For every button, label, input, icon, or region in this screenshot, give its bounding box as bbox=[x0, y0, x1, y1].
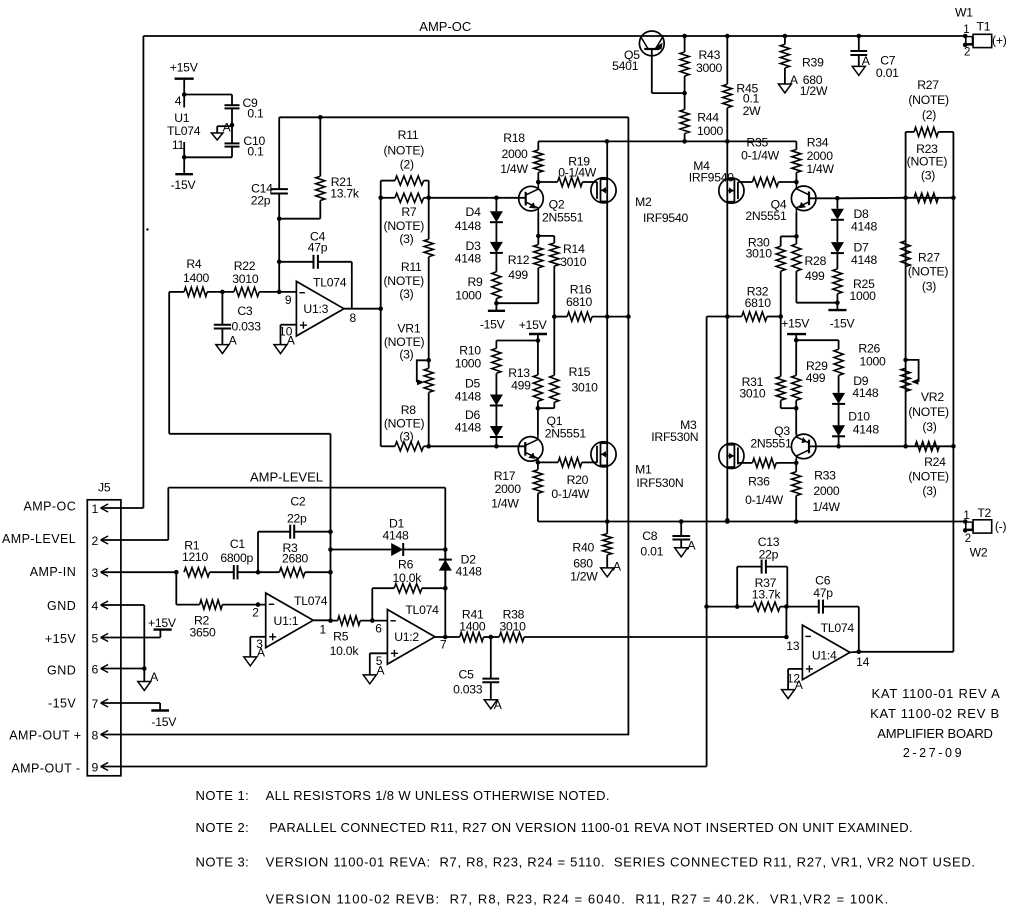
svg-text:0.033: 0.033 bbox=[453, 683, 483, 697]
svg-text:R8: R8 bbox=[401, 403, 417, 417]
svg-text:C3: C3 bbox=[237, 304, 253, 318]
svg-text:499: 499 bbox=[508, 268, 528, 282]
svg-text:A: A bbox=[687, 538, 696, 552]
svg-text:4148: 4148 bbox=[455, 389, 482, 403]
svg-text:R6: R6 bbox=[398, 558, 414, 572]
svg-text:(NOTE): (NOTE) bbox=[908, 470, 949, 484]
svg-text:2N5551: 2N5551 bbox=[542, 211, 584, 225]
svg-text:2000: 2000 bbox=[501, 147, 528, 161]
svg-text:+15V: +15V bbox=[148, 616, 177, 630]
svg-text:1000: 1000 bbox=[850, 289, 877, 303]
svg-text:3010: 3010 bbox=[232, 272, 259, 286]
svg-text:8: 8 bbox=[92, 728, 99, 742]
svg-text:+15V: +15V bbox=[170, 61, 199, 75]
svg-text:W2: W2 bbox=[970, 546, 988, 560]
svg-text:499: 499 bbox=[511, 379, 531, 393]
svg-text:6: 6 bbox=[92, 662, 99, 676]
svg-text:47p: 47p bbox=[308, 240, 328, 254]
svg-text:+15V: +15V bbox=[781, 316, 810, 330]
svg-text:+15V: +15V bbox=[45, 632, 77, 646]
svg-text:1000: 1000 bbox=[455, 356, 482, 370]
svg-text:VR1: VR1 bbox=[397, 321, 420, 335]
svg-text:22p: 22p bbox=[251, 193, 271, 207]
svg-text:6810: 6810 bbox=[745, 296, 772, 310]
svg-text:2: 2 bbox=[965, 533, 971, 545]
svg-text:2680: 2680 bbox=[282, 552, 309, 566]
svg-text:680: 680 bbox=[573, 556, 593, 570]
svg-text:10: 10 bbox=[279, 324, 293, 338]
svg-text:R27: R27 bbox=[917, 78, 939, 92]
svg-text:1000: 1000 bbox=[455, 289, 482, 303]
svg-text:8: 8 bbox=[349, 311, 356, 325]
svg-text:R22: R22 bbox=[234, 259, 256, 273]
svg-text:J5: J5 bbox=[98, 480, 111, 494]
svg-text:14: 14 bbox=[856, 655, 870, 669]
svg-text:2: 2 bbox=[252, 606, 259, 620]
svg-text:22p: 22p bbox=[759, 547, 779, 561]
svg-text:(NOTE): (NOTE) bbox=[383, 274, 424, 288]
svg-text:3010: 3010 bbox=[560, 255, 587, 269]
svg-text:1210: 1210 bbox=[182, 550, 209, 564]
svg-text:4148: 4148 bbox=[456, 565, 483, 579]
svg-text:1/2W: 1/2W bbox=[570, 569, 598, 583]
svg-text:3010: 3010 bbox=[500, 620, 527, 634]
svg-text:3010: 3010 bbox=[739, 387, 766, 401]
svg-text:1000: 1000 bbox=[859, 354, 886, 368]
svg-text:499: 499 bbox=[806, 371, 826, 385]
svg-text:2000: 2000 bbox=[495, 482, 522, 496]
svg-text:D4: D4 bbox=[466, 205, 482, 219]
svg-text:(3): (3) bbox=[399, 430, 413, 444]
svg-text:R4: R4 bbox=[186, 257, 202, 271]
svg-text:10.0k: 10.0k bbox=[330, 644, 360, 658]
svg-text:IRF9540: IRF9540 bbox=[643, 211, 688, 225]
svg-text:3650: 3650 bbox=[189, 626, 216, 640]
svg-text:0.01: 0.01 bbox=[640, 545, 663, 559]
svg-text:R18: R18 bbox=[503, 131, 525, 145]
svg-text:-15V: -15V bbox=[48, 697, 76, 711]
svg-text:10.0k: 10.0k bbox=[393, 571, 423, 585]
svg-text:IRF530N: IRF530N bbox=[636, 476, 683, 490]
svg-text:R7: R7 bbox=[401, 205, 417, 219]
svg-text:11: 11 bbox=[172, 138, 185, 152]
svg-text:R27: R27 bbox=[918, 250, 940, 264]
svg-text:-15V: -15V bbox=[480, 317, 506, 331]
svg-text:2N5551: 2N5551 bbox=[750, 436, 792, 450]
svg-text:13.7k: 13.7k bbox=[752, 588, 782, 602]
svg-text:A: A bbox=[790, 73, 799, 87]
svg-text:TL074: TL074 bbox=[405, 603, 439, 617]
svg-text:IRF9540: IRF9540 bbox=[689, 171, 734, 185]
svg-text:0.033: 0.033 bbox=[231, 320, 261, 334]
svg-text:AMP-OUT -: AMP-OUT - bbox=[11, 762, 80, 776]
svg-text:1/4W: 1/4W bbox=[491, 496, 519, 510]
svg-text:D10: D10 bbox=[848, 409, 870, 423]
svg-text:ALL RESISTORS 1/8 W UNLESS OTH: ALL RESISTORS 1/8 W UNLESS OTHERWISE NOT… bbox=[266, 788, 610, 803]
svg-text:12: 12 bbox=[787, 671, 801, 685]
svg-text:499: 499 bbox=[805, 269, 825, 283]
svg-text:0-1/4W: 0-1/4W bbox=[741, 148, 780, 162]
svg-text:7: 7 bbox=[440, 638, 447, 652]
svg-text:6800p: 6800p bbox=[220, 551, 253, 565]
svg-text:R14: R14 bbox=[563, 242, 585, 256]
svg-text:R24: R24 bbox=[924, 455, 946, 469]
svg-text:C2: C2 bbox=[290, 495, 306, 509]
svg-text:VERSION 1100-01 REVA: R7, R8,: VERSION 1100-01 REVA: R7, R8, R23, R24 =… bbox=[266, 855, 976, 870]
svg-text:TL074: TL074 bbox=[294, 594, 328, 608]
svg-text:U1:4: U1:4 bbox=[812, 649, 837, 663]
svg-text:NOTE 2:: NOTE 2: bbox=[196, 820, 250, 835]
svg-text:AMPLIFIER BOARD: AMPLIFIER BOARD bbox=[877, 726, 992, 741]
svg-text:4148: 4148 bbox=[455, 219, 482, 233]
svg-text:T2: T2 bbox=[977, 506, 991, 520]
svg-text:0.1: 0.1 bbox=[247, 144, 264, 158]
svg-text:1/2W: 1/2W bbox=[800, 84, 828, 98]
svg-text:1000: 1000 bbox=[697, 124, 724, 138]
svg-text:(3): (3) bbox=[399, 347, 413, 361]
svg-text:13.7k: 13.7k bbox=[330, 187, 360, 201]
svg-text:1: 1 bbox=[319, 623, 326, 637]
svg-text:-15V: -15V bbox=[830, 316, 856, 330]
svg-text:4148: 4148 bbox=[852, 386, 879, 400]
svg-text:AMP-OC: AMP-OC bbox=[419, 19, 471, 34]
svg-text:0.1: 0.1 bbox=[247, 107, 264, 121]
svg-text:(NOTE): (NOTE) bbox=[908, 265, 949, 279]
svg-text:1400: 1400 bbox=[183, 271, 210, 285]
svg-text:6810: 6810 bbox=[566, 295, 593, 309]
svg-text:U1: U1 bbox=[174, 111, 190, 125]
svg-text:C5: C5 bbox=[459, 667, 475, 681]
svg-text:TL074: TL074 bbox=[167, 124, 201, 138]
svg-text:W1: W1 bbox=[955, 6, 973, 20]
svg-text:(2): (2) bbox=[400, 157, 414, 171]
svg-text:4: 4 bbox=[92, 599, 99, 613]
svg-text:+15V: +15V bbox=[519, 318, 548, 332]
svg-text:1/4W: 1/4W bbox=[500, 162, 528, 176]
svg-text:U1:3: U1:3 bbox=[303, 302, 328, 316]
svg-text:5: 5 bbox=[92, 631, 99, 645]
svg-text:KAT 1100-02 REV B: KAT 1100-02 REV B bbox=[870, 706, 1000, 721]
svg-text:(NOTE): (NOTE) bbox=[908, 405, 949, 419]
svg-text:(NOTE): (NOTE) bbox=[384, 143, 425, 157]
svg-text:R40: R40 bbox=[572, 541, 594, 555]
svg-text:GND: GND bbox=[47, 664, 76, 678]
svg-text:5: 5 bbox=[376, 654, 383, 668]
svg-text:(3): (3) bbox=[922, 280, 936, 294]
svg-text:R15: R15 bbox=[569, 365, 591, 379]
svg-text:A: A bbox=[223, 121, 232, 135]
svg-text:TL074: TL074 bbox=[821, 621, 855, 635]
svg-text:(NOTE): (NOTE) bbox=[384, 416, 425, 430]
svg-text:9: 9 bbox=[285, 293, 292, 307]
svg-text:R36: R36 bbox=[748, 475, 770, 489]
svg-text:9: 9 bbox=[92, 760, 99, 774]
svg-text:NOTE 1:: NOTE 1: bbox=[196, 788, 250, 803]
svg-text:4148: 4148 bbox=[382, 528, 409, 542]
svg-text:(NOTE): (NOTE) bbox=[384, 219, 425, 233]
svg-text:R17: R17 bbox=[494, 469, 516, 483]
svg-text:C8: C8 bbox=[642, 529, 658, 543]
svg-text:R33: R33 bbox=[814, 469, 836, 483]
svg-text:A: A bbox=[862, 54, 871, 68]
svg-text:(+): (+) bbox=[992, 34, 1007, 48]
svg-text:-15V: -15V bbox=[171, 178, 197, 192]
svg-text:4148: 4148 bbox=[853, 423, 880, 437]
svg-text:R43: R43 bbox=[698, 48, 720, 62]
svg-text:R28: R28 bbox=[804, 254, 826, 268]
svg-text:A: A bbox=[494, 698, 503, 712]
svg-text:R5: R5 bbox=[333, 630, 349, 644]
svg-text:AMP-LEVEL: AMP-LEVEL bbox=[2, 532, 76, 546]
svg-text:2000: 2000 bbox=[813, 484, 840, 498]
svg-text:(3): (3) bbox=[399, 287, 413, 301]
svg-text:22p: 22p bbox=[287, 511, 307, 525]
svg-text:IRF530N: IRF530N bbox=[651, 430, 698, 444]
svg-text:(3): (3) bbox=[921, 169, 935, 183]
svg-text:M1: M1 bbox=[635, 462, 652, 476]
svg-text:T1: T1 bbox=[977, 19, 991, 33]
svg-text:R20: R20 bbox=[567, 473, 589, 487]
svg-text:4148: 4148 bbox=[455, 251, 482, 265]
svg-text:-15V: -15V bbox=[151, 715, 177, 729]
svg-text:PARALLEL CONNECTED R11, R27 ON: PARALLEL CONNECTED R11, R27 ON VERSION 1… bbox=[269, 820, 913, 835]
svg-text:2N5551: 2N5551 bbox=[545, 426, 587, 440]
svg-text:4148: 4148 bbox=[455, 421, 482, 435]
svg-text:5401: 5401 bbox=[612, 59, 639, 73]
svg-text:47p: 47p bbox=[813, 586, 833, 600]
svg-text:0.01: 0.01 bbox=[876, 66, 899, 80]
svg-text:1: 1 bbox=[963, 24, 969, 36]
svg-text:2: 2 bbox=[964, 46, 970, 58]
svg-text:R11: R11 bbox=[398, 128, 419, 142]
svg-text:AMP-IN: AMP-IN bbox=[30, 565, 76, 579]
svg-text:R34: R34 bbox=[807, 135, 829, 149]
svg-text:1: 1 bbox=[963, 510, 969, 522]
svg-text:2-27-09: 2-27-09 bbox=[903, 746, 964, 760]
svg-text:GND: GND bbox=[47, 599, 76, 613]
svg-text:M2: M2 bbox=[635, 195, 652, 209]
svg-text:(2): (2) bbox=[922, 108, 936, 122]
svg-text:(-): (-) bbox=[995, 520, 1007, 534]
svg-text:(NOTE): (NOTE) bbox=[907, 155, 948, 169]
svg-text:6: 6 bbox=[375, 621, 382, 635]
svg-text:R11: R11 bbox=[401, 260, 422, 274]
svg-text:AMP-OC: AMP-OC bbox=[23, 499, 76, 513]
svg-text:2: 2 bbox=[92, 534, 99, 548]
svg-text:C1: C1 bbox=[230, 537, 246, 551]
svg-text:R35: R35 bbox=[746, 135, 768, 149]
svg-text:R9: R9 bbox=[467, 275, 483, 289]
svg-text:R39: R39 bbox=[802, 55, 824, 69]
svg-text:A: A bbox=[613, 559, 622, 573]
svg-text:R12: R12 bbox=[508, 253, 530, 267]
svg-text:(NOTE): (NOTE) bbox=[908, 93, 949, 107]
svg-text:Q2: Q2 bbox=[549, 197, 565, 211]
svg-text:7: 7 bbox=[92, 697, 99, 711]
svg-text:(3): (3) bbox=[399, 232, 413, 246]
svg-text:3000: 3000 bbox=[696, 61, 723, 75]
svg-text:2W: 2W bbox=[743, 104, 762, 118]
svg-text:1400: 1400 bbox=[459, 620, 486, 634]
svg-text:R10: R10 bbox=[459, 343, 481, 357]
svg-text:AMP-OUT +: AMP-OUT + bbox=[9, 729, 81, 743]
svg-text:AMP-LEVEL: AMP-LEVEL bbox=[250, 469, 323, 484]
svg-text:(3): (3) bbox=[922, 420, 936, 434]
svg-text:R44: R44 bbox=[697, 111, 719, 125]
svg-text:0-1/4W: 0-1/4W bbox=[551, 487, 590, 501]
svg-text:A: A bbox=[150, 670, 159, 684]
svg-text:KAT 1100-01 REV A: KAT 1100-01 REV A bbox=[871, 686, 1000, 701]
svg-text:1/4W: 1/4W bbox=[806, 162, 834, 176]
svg-text:U1:2: U1:2 bbox=[394, 630, 419, 644]
svg-text:4: 4 bbox=[175, 94, 182, 108]
svg-text:(3): (3) bbox=[922, 484, 936, 498]
svg-text:3010: 3010 bbox=[572, 380, 599, 394]
svg-text:3010: 3010 bbox=[746, 246, 773, 260]
svg-text:4148: 4148 bbox=[851, 220, 878, 234]
svg-text:0-1/4W: 0-1/4W bbox=[558, 165, 597, 179]
svg-text:0-1/4W: 0-1/4W bbox=[745, 493, 784, 507]
svg-text:NOTE 3:: NOTE 3: bbox=[196, 855, 250, 870]
svg-text:VR2: VR2 bbox=[921, 390, 944, 404]
svg-text:2N5551: 2N5551 bbox=[745, 209, 787, 223]
svg-text:3: 3 bbox=[256, 637, 263, 651]
svg-text:4148: 4148 bbox=[851, 253, 878, 267]
svg-text:VERSION 1100-02 REVB: R7, R8,: VERSION 1100-02 REVB: R7, R8, R23, R24 =… bbox=[266, 891, 890, 906]
svg-text:3: 3 bbox=[92, 566, 99, 580]
svg-text:C6: C6 bbox=[815, 573, 831, 587]
svg-text:A: A bbox=[229, 333, 238, 347]
svg-text:1: 1 bbox=[92, 502, 99, 516]
svg-text:U1:1: U1:1 bbox=[274, 614, 299, 628]
svg-text:1/4W: 1/4W bbox=[812, 500, 840, 514]
svg-text:TL074: TL074 bbox=[313, 276, 347, 290]
svg-text:13: 13 bbox=[786, 639, 800, 653]
